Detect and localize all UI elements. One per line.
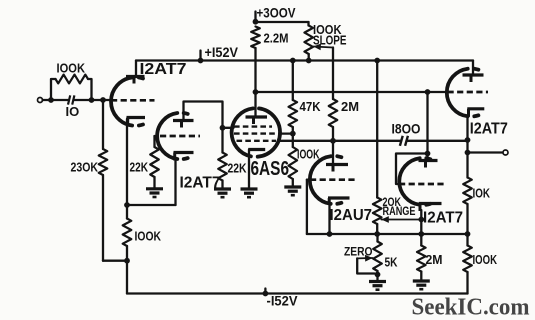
- svg-text:RANGE: RANGE: [383, 206, 416, 218]
- svg-text:6AS6: 6AS6: [251, 157, 290, 180]
- svg-text:47K: 47K: [300, 99, 322, 114]
- svg-text:IOK: IOK: [473, 186, 491, 201]
- svg-text:5K: 5K: [385, 255, 398, 270]
- svg-text:22K: 22K: [228, 161, 247, 176]
- svg-text:2M: 2M: [341, 99, 359, 114]
- svg-text:22K: 22K: [130, 160, 149, 175]
- svg-text:I8OO: I8OO: [392, 121, 421, 137]
- svg-text:IO: IO: [66, 104, 80, 119]
- svg-text:2M: 2M: [426, 252, 443, 267]
- svg-text:+3OOV: +3OOV: [257, 6, 296, 21]
- svg-text:IOOK: IOOK: [57, 61, 86, 76]
- svg-text:SLOPE: SLOPE: [313, 33, 347, 48]
- svg-text:I2AT7: I2AT7: [180, 175, 221, 192]
- svg-text:-I52V: -I52V: [267, 294, 298, 309]
- svg-text:23OK: 23OK: [71, 160, 99, 175]
- svg-text:I2AT7: I2AT7: [423, 210, 463, 227]
- svg-text:IOOK: IOOK: [297, 147, 320, 162]
- svg-text:+I52V: +I52V: [205, 45, 239, 60]
- svg-text:IOOK: IOOK: [135, 229, 162, 244]
- svg-text:SeekIC.com: SeekIC.com: [412, 295, 530, 320]
- svg-text:I2AT7: I2AT7: [140, 61, 187, 78]
- svg-text:I2AU7: I2AU7: [330, 207, 373, 224]
- svg-text:IOOK: IOOK: [473, 252, 498, 267]
- svg-text:ZERO: ZERO: [344, 247, 373, 259]
- svg-text:2.2M: 2.2M: [264, 31, 289, 46]
- svg-text:I2AT7: I2AT7: [470, 121, 508, 138]
